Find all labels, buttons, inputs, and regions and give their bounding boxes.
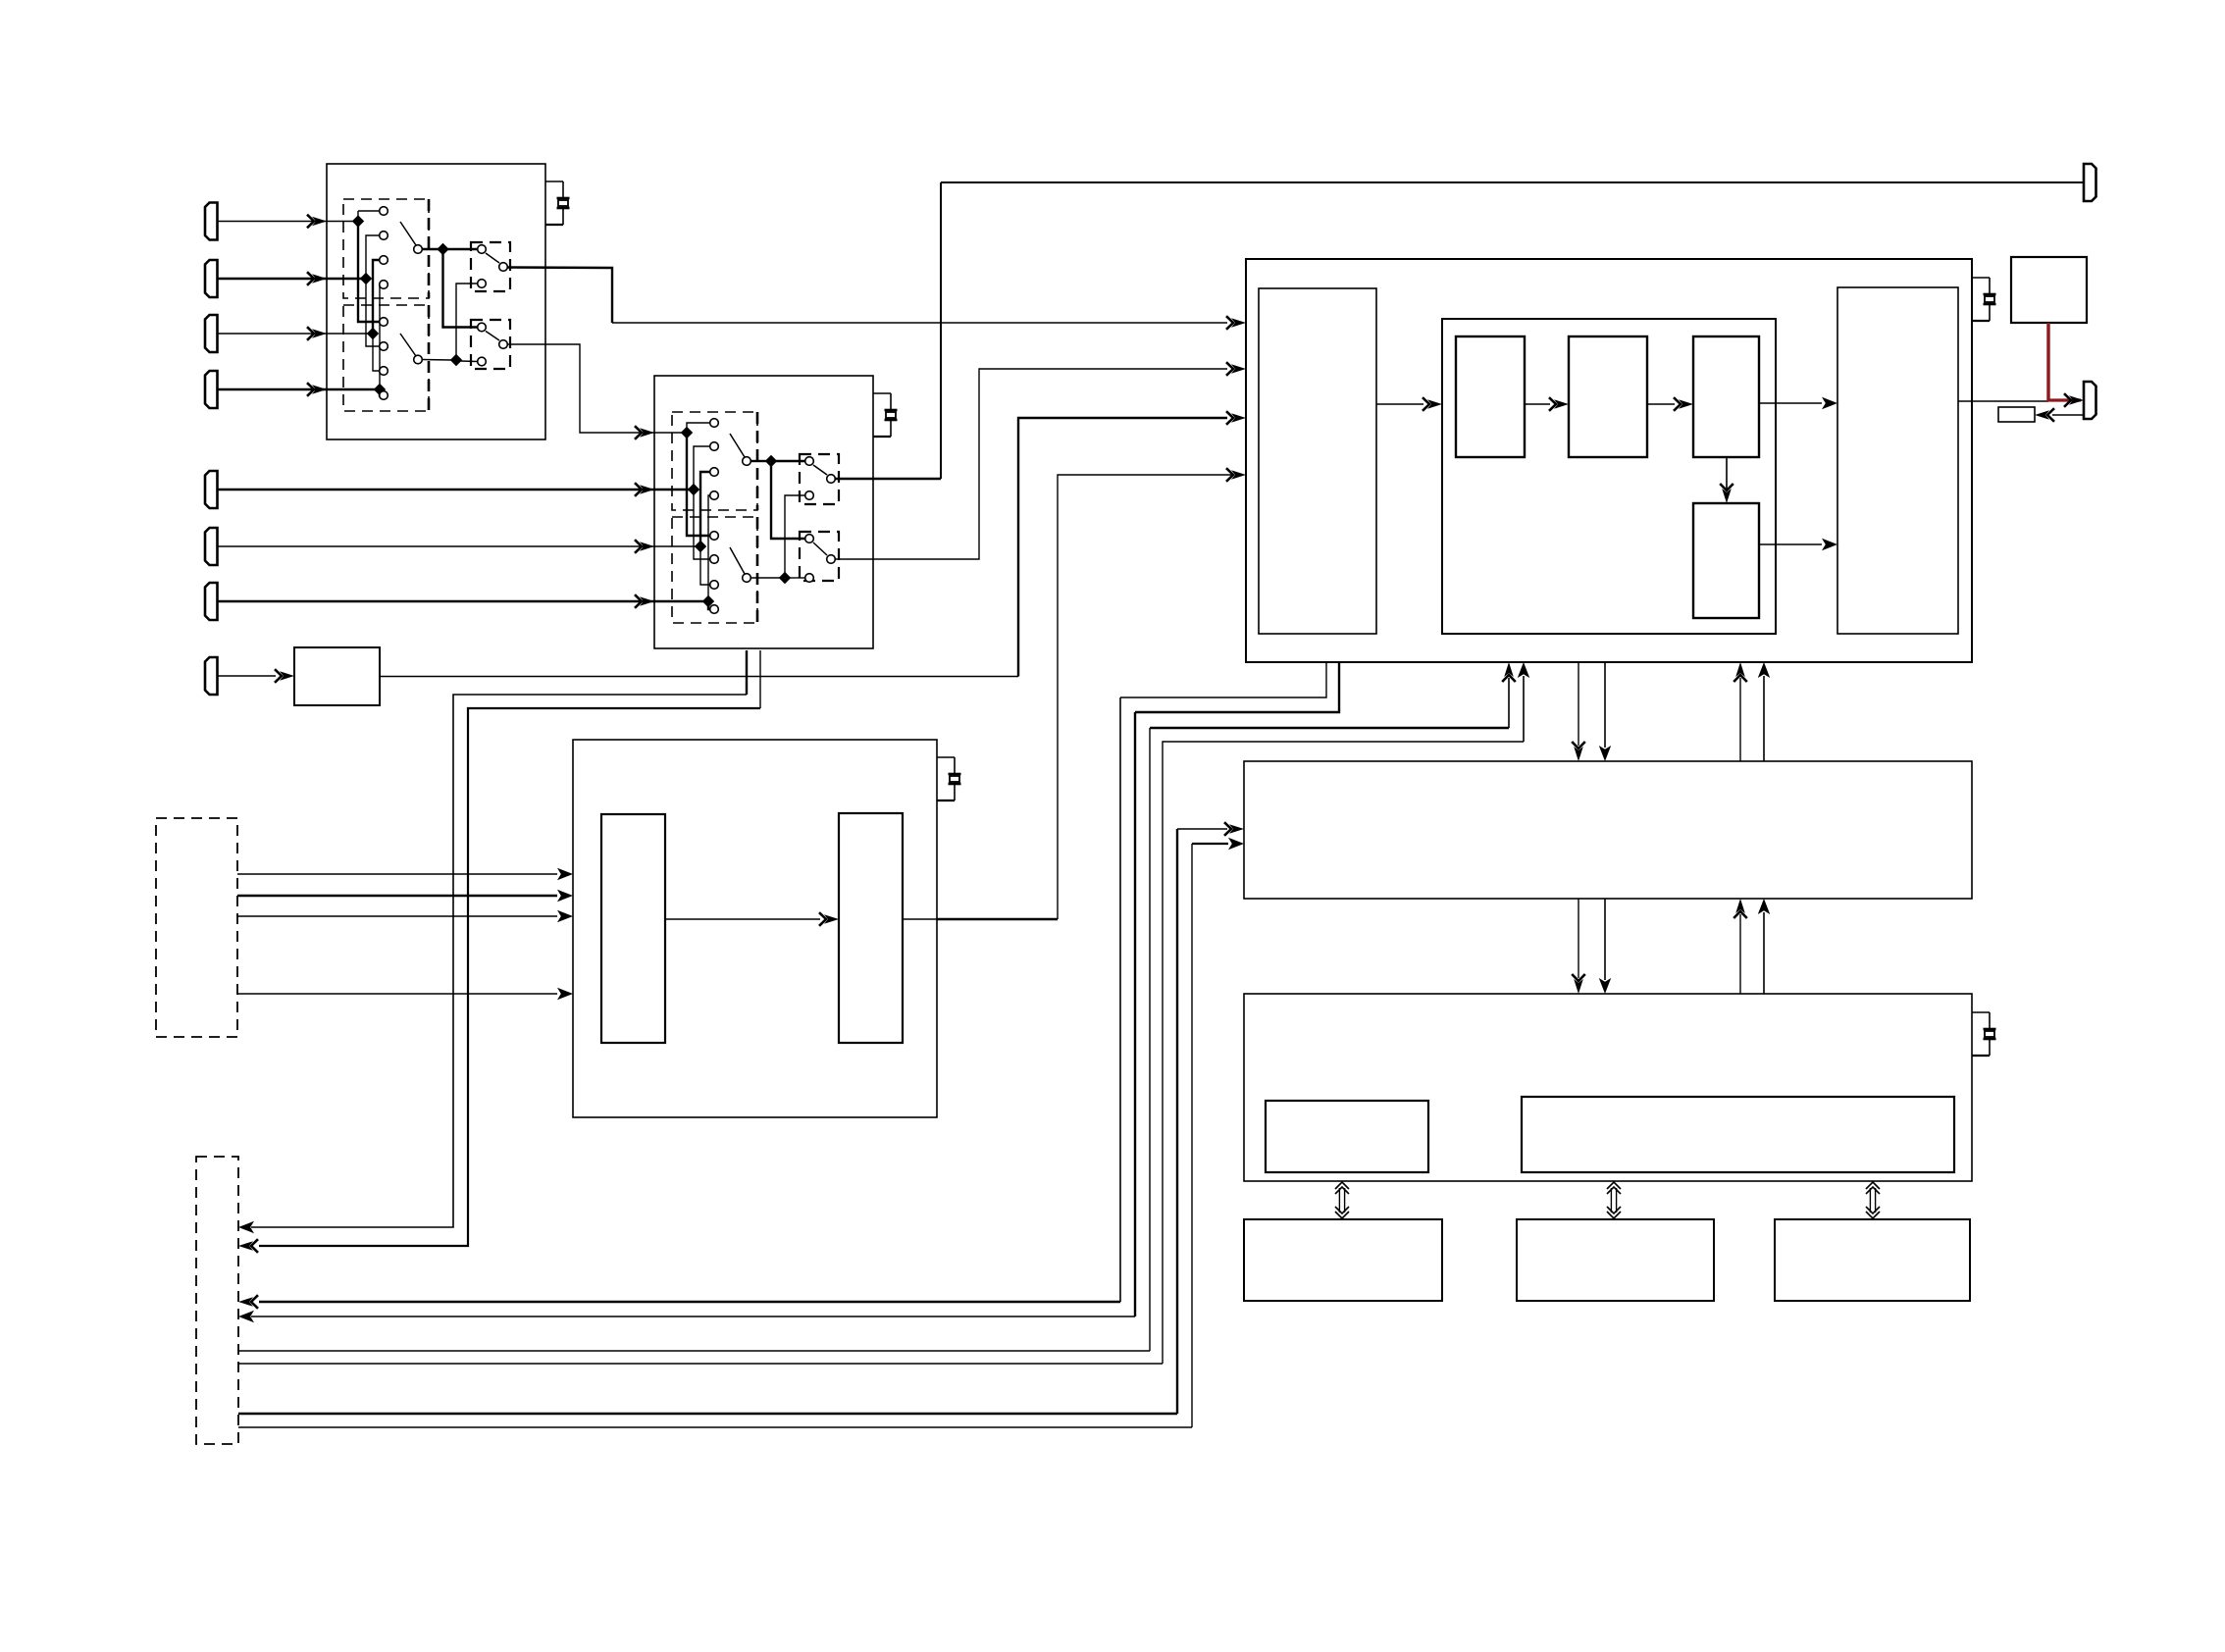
sub box M3 xyxy=(1775,1219,1970,1301)
IC1 j6 rise to SW2-1 xyxy=(456,284,478,360)
SW4-2 contacts xyxy=(805,535,814,543)
IC1 SW1-1 wiper xyxy=(400,222,416,245)
IC4-IC5 down arrow b xyxy=(1604,899,1606,980)
IC2 junction j5 xyxy=(765,455,777,467)
SW2-2 contacts xyxy=(478,323,487,332)
IC1 j5 to SW2-1 xyxy=(447,248,478,250)
DSP stage rect3 xyxy=(1693,336,1759,457)
IC3 output stage rectB xyxy=(1837,287,1958,634)
IC3-IC4 down arrow a xyxy=(1578,662,1579,746)
wire J5 to SW box IC2 input2 xyxy=(218,489,695,490)
selector SW1-2 dashed box xyxy=(343,305,429,411)
connector J6 xyxy=(205,528,218,565)
bus line 7 D2 to IC4 xyxy=(238,1413,1177,1415)
IC1 aux output to IC2 input1 xyxy=(508,344,688,433)
IC2 SW3-1 wiper xyxy=(730,434,745,457)
IC4-IC3 up arrow b xyxy=(1763,676,1765,761)
IC3-IC4 down arrow b xyxy=(1604,662,1606,748)
crystal X2 xyxy=(873,392,891,394)
amp stage A1 xyxy=(601,814,665,1043)
connector J10 xyxy=(2084,382,2096,419)
D1 line3 to amp xyxy=(237,915,557,917)
bus line 2 IC2 to D2 xyxy=(759,650,761,708)
wire J7 to SW box IC2 input4 xyxy=(218,600,709,602)
SW2-1 wiper xyxy=(486,253,499,263)
IC1 contact risers xyxy=(358,210,380,212)
IC2 j6 rise to SW4-1 xyxy=(785,495,805,578)
dashed source box D1 xyxy=(156,818,237,1037)
IC2 j6 to SW4-2 xyxy=(790,577,805,579)
DSP stage rect1 xyxy=(1456,336,1525,457)
bus arrow IC5-M1 xyxy=(1338,1188,1340,1213)
buffer output to processor input3 xyxy=(380,676,1018,678)
rectA to DSP wire xyxy=(1376,403,1423,405)
wire J1 to SW box IC1 input1 xyxy=(218,221,359,223)
IC2 j5 drop to SW4-2 xyxy=(771,461,805,539)
bus line 6 D2 to IC3 xyxy=(238,1363,1163,1365)
switch box IC2 xyxy=(654,376,873,648)
connector J2 xyxy=(205,260,218,297)
IC1 main output to processor input1 xyxy=(508,268,613,324)
selector SW1-1 dashed box xyxy=(343,199,429,298)
IC1 junction j3 xyxy=(367,328,379,339)
IC2 aux output to processor input2 xyxy=(836,369,1228,559)
connector J1 xyxy=(205,203,218,240)
switch box IC1 xyxy=(327,164,545,439)
IC1 junction j4 xyxy=(374,384,386,395)
DSP stage rect2 xyxy=(1569,336,1647,457)
amp box xyxy=(573,740,937,1117)
IC1 contact drops xyxy=(358,222,380,323)
IC5-IC4 up arrow a xyxy=(1739,914,1741,994)
processor box IC3 xyxy=(1246,259,1972,662)
IC1 SW1-2 contacts xyxy=(380,318,388,327)
D1 line4 to amp xyxy=(237,993,557,995)
IC1 junction j5 xyxy=(437,243,448,255)
SW4-2 wiper xyxy=(813,542,827,555)
IC1 SW1-2 wiper xyxy=(400,334,416,356)
IC5-IC4 up arrow b xyxy=(1763,912,1765,994)
aux switch SW4-2 dashed box xyxy=(800,532,839,581)
IC2 SW3-1 common wire xyxy=(751,460,767,462)
interface box IC4 xyxy=(1244,761,1972,899)
aux switch SW2-2 dashed box xyxy=(471,320,510,369)
bus line 5 D2 to IC3 xyxy=(238,1350,1150,1352)
rect3 to rect4 down wire xyxy=(1726,457,1728,489)
buffer box xyxy=(294,647,380,705)
aux switch SW2-1 dashed box xyxy=(471,242,510,291)
rect1 to rect2 wire xyxy=(1525,403,1550,405)
connector J5 xyxy=(205,471,218,508)
selector SW3-1 dashed box xyxy=(672,412,757,510)
IC2 main output riser to connector J9 xyxy=(836,478,942,480)
crystal X4 xyxy=(1972,277,1990,279)
wire J8 to buffer box xyxy=(218,675,277,677)
SW2-2 wiper xyxy=(486,332,499,341)
crystal X5 xyxy=(1972,1011,1990,1013)
IC1 SW1-1 contacts xyxy=(380,207,388,216)
IC3 DSP sub-box xyxy=(1442,319,1776,634)
bus arrow IC5-M3 xyxy=(1869,1188,1871,1213)
amp stage A2 xyxy=(839,813,903,1043)
memory box IC5 xyxy=(1244,994,1972,1181)
IC1 junction j2 xyxy=(360,273,372,284)
IC5 inner rectL xyxy=(1266,1101,1428,1172)
red power feed wire xyxy=(2046,323,2049,399)
amp output to processor input4 xyxy=(903,918,937,920)
IC4-IC3 up arrow a xyxy=(1739,678,1741,761)
wire J6 to SW box IC2 input3 xyxy=(218,545,701,547)
selector SW3-2 dashed box xyxy=(672,517,757,623)
bus line 3 IC3 to D2 xyxy=(1120,662,1326,697)
SW4-1 wiper xyxy=(813,465,827,475)
IC1 SW1-1 common wire xyxy=(423,248,440,250)
crystal X1 xyxy=(545,181,563,182)
IC2 contact risers xyxy=(687,423,710,433)
top wire to connector J9 xyxy=(941,181,2084,183)
rect4 to rectB wire xyxy=(1759,543,1822,545)
IC4-IC5 down arrow a xyxy=(1578,899,1579,978)
D1 line2 to amp xyxy=(237,895,557,897)
connector J9 top right xyxy=(2084,164,2096,201)
aux switch SW4-1 dashed box xyxy=(800,454,839,504)
IC2 junction j1 xyxy=(681,427,693,439)
rectB output wire xyxy=(1958,400,2048,402)
sub box M1 xyxy=(1244,1219,1442,1301)
bus line 1 IC2 to D2 xyxy=(746,650,748,695)
bus line 8 D2 to IC4 xyxy=(238,1426,1192,1428)
IC2 SW3-2 wiper xyxy=(730,547,745,574)
amp A1 to A2 wire xyxy=(665,918,820,920)
connector J4 xyxy=(205,371,218,408)
IC2 junction j3 xyxy=(695,541,706,552)
connector J3 xyxy=(205,315,218,352)
IC2 junction j2 xyxy=(688,484,699,495)
IC1 junction j6 xyxy=(450,354,462,366)
dashed connector box D2 xyxy=(196,1157,238,1444)
IC2 SW3-2 contacts xyxy=(710,532,719,541)
IC1 SW1-2 common wire xyxy=(423,359,452,362)
DC power box xyxy=(2011,257,2087,323)
IC5 inner rectR xyxy=(1522,1097,1954,1172)
wire J4 to SW box IC1 input4 xyxy=(218,388,381,390)
feedback wire from J10 xyxy=(2052,414,2084,416)
IC2 junction j6 xyxy=(779,572,791,584)
IC2 contact drops xyxy=(687,433,710,536)
IC2 SW3-1 contacts xyxy=(710,419,719,428)
wire J2 to SW box IC1 input2 xyxy=(218,278,367,280)
feedback small box xyxy=(1998,407,2035,422)
D1 line1 to amp xyxy=(237,873,557,875)
sub box M2 xyxy=(1517,1219,1714,1301)
bus arrow IC5-M2 xyxy=(1610,1188,1612,1213)
rect2 to rect3 wire xyxy=(1647,403,1675,405)
SW4-1 contacts xyxy=(805,457,814,466)
crystal X3 xyxy=(937,756,955,758)
IC1 j5 drop to SW2-2 xyxy=(443,249,478,328)
connector J8 xyxy=(205,657,218,695)
IC2 SW3-2 common wire xyxy=(751,577,781,579)
connector J7 xyxy=(205,583,218,620)
IC1 junction j1 xyxy=(352,215,364,227)
IC3 input stage rectA xyxy=(1259,288,1376,634)
DSP stage rect4 xyxy=(1693,503,1759,618)
IC2 j5 to SW4-1 xyxy=(776,460,805,462)
bus line 4 IC3 to D2 xyxy=(1135,662,1339,712)
rect3 to rectB wire xyxy=(1759,402,1822,404)
IC1 j6 to SW2-2 xyxy=(461,360,478,363)
wire J3 to SW box IC1 input3 xyxy=(218,333,374,335)
IC2 junction j4 xyxy=(702,595,714,607)
SW2-1 contacts xyxy=(478,245,487,254)
